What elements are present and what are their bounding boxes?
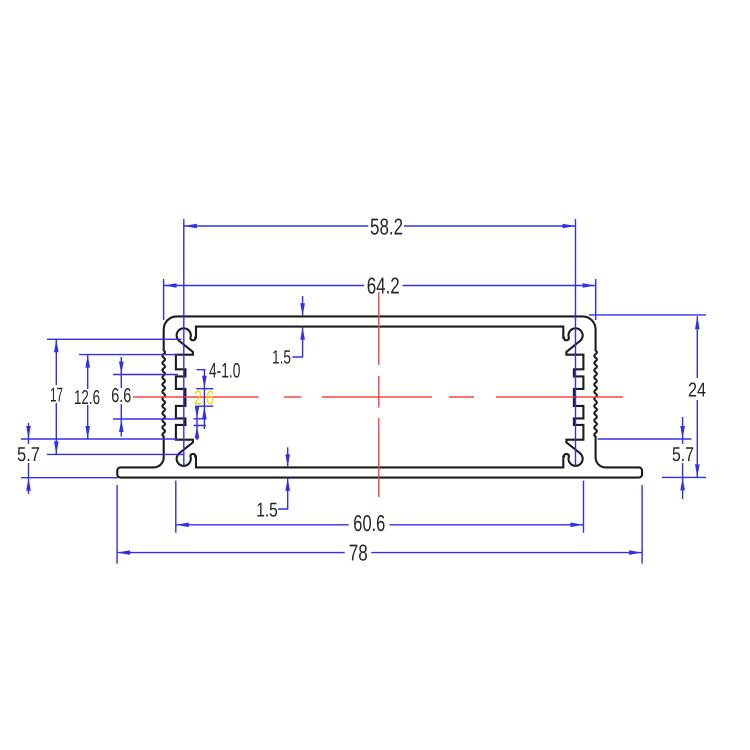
5.7 right dim: [598, 417, 692, 499]
1.5 top dim: [292, 296, 302, 357]
arrows dim 78: [117, 550, 642, 555]
arrows dim 24: [695, 316, 700, 477]
svg-text:5.7: 5.7: [672, 444, 694, 466]
svg-text:64.2: 64.2: [367, 273, 400, 299]
svg-text:12.6: 12.6: [74, 387, 100, 409]
svg-text:24: 24: [688, 380, 706, 402]
arrows dim 17: [54, 339, 59, 454]
arrows dim 2.6 rib: [202, 376, 207, 420]
arrows dim 58.2: [184, 224, 576, 229]
arrows dim 5.7 left: [26, 426, 31, 491]
58.2 dim: [184, 219, 576, 466]
svg-text:1.5: 1.5: [256, 499, 278, 521]
2.6 / 4-1.0 cluster: [193, 370, 213, 440]
1.5 bottom dim lines: [278, 447, 288, 509]
arrows dim 4-1.0 slot: [195, 406, 200, 439]
horizontal centerline dashes: [133, 396, 623, 398]
60.6 dim: [176, 481, 584, 533]
svg-text:4-1.0: 4-1.0: [209, 360, 240, 383]
shared bottom-left ext lines: [21, 439, 178, 478]
12.6 dim: [79, 355, 178, 439]
64.2 dim: [164, 279, 596, 320]
svg-text:6.6: 6.6: [111, 385, 131, 407]
svg-text:58.2: 58.2: [370, 214, 403, 240]
svg-text:78: 78: [349, 539, 368, 565]
arrows dim 60.6: [176, 523, 584, 528]
arrows dim 5.7 right: [680, 426, 685, 490]
arrows dim 1.5 top wall: [300, 303, 305, 340]
arrows dim 12.6: [85, 355, 90, 439]
red centerlines: [133, 292, 623, 497]
profile inner bore: [176, 327, 584, 468]
blue dimension lines: [21, 219, 706, 564]
24 dim: [589, 315, 706, 478]
svg-text:17: 17: [50, 385, 63, 407]
vertical centerline dashes: [378, 292, 380, 497]
78 dim: [117, 485, 642, 564]
5.7 left dim: [28, 423, 30, 494]
arrows dim 1.5 bottom wall: [285, 454, 290, 491]
profile outline outer: [117, 316, 642, 477]
6.6 dim: [113, 357, 178, 437]
arrows dim 64.2: [164, 283, 596, 288]
arrows dim 6.6: [119, 362, 124, 433]
svg-text:60.6: 60.6: [353, 510, 385, 536]
17 dim: [47, 339, 184, 454]
svg-text:1.5: 1.5: [272, 348, 291, 369]
dimension texts: [17, 214, 706, 566]
svg-text:5.7: 5.7: [17, 444, 40, 466]
